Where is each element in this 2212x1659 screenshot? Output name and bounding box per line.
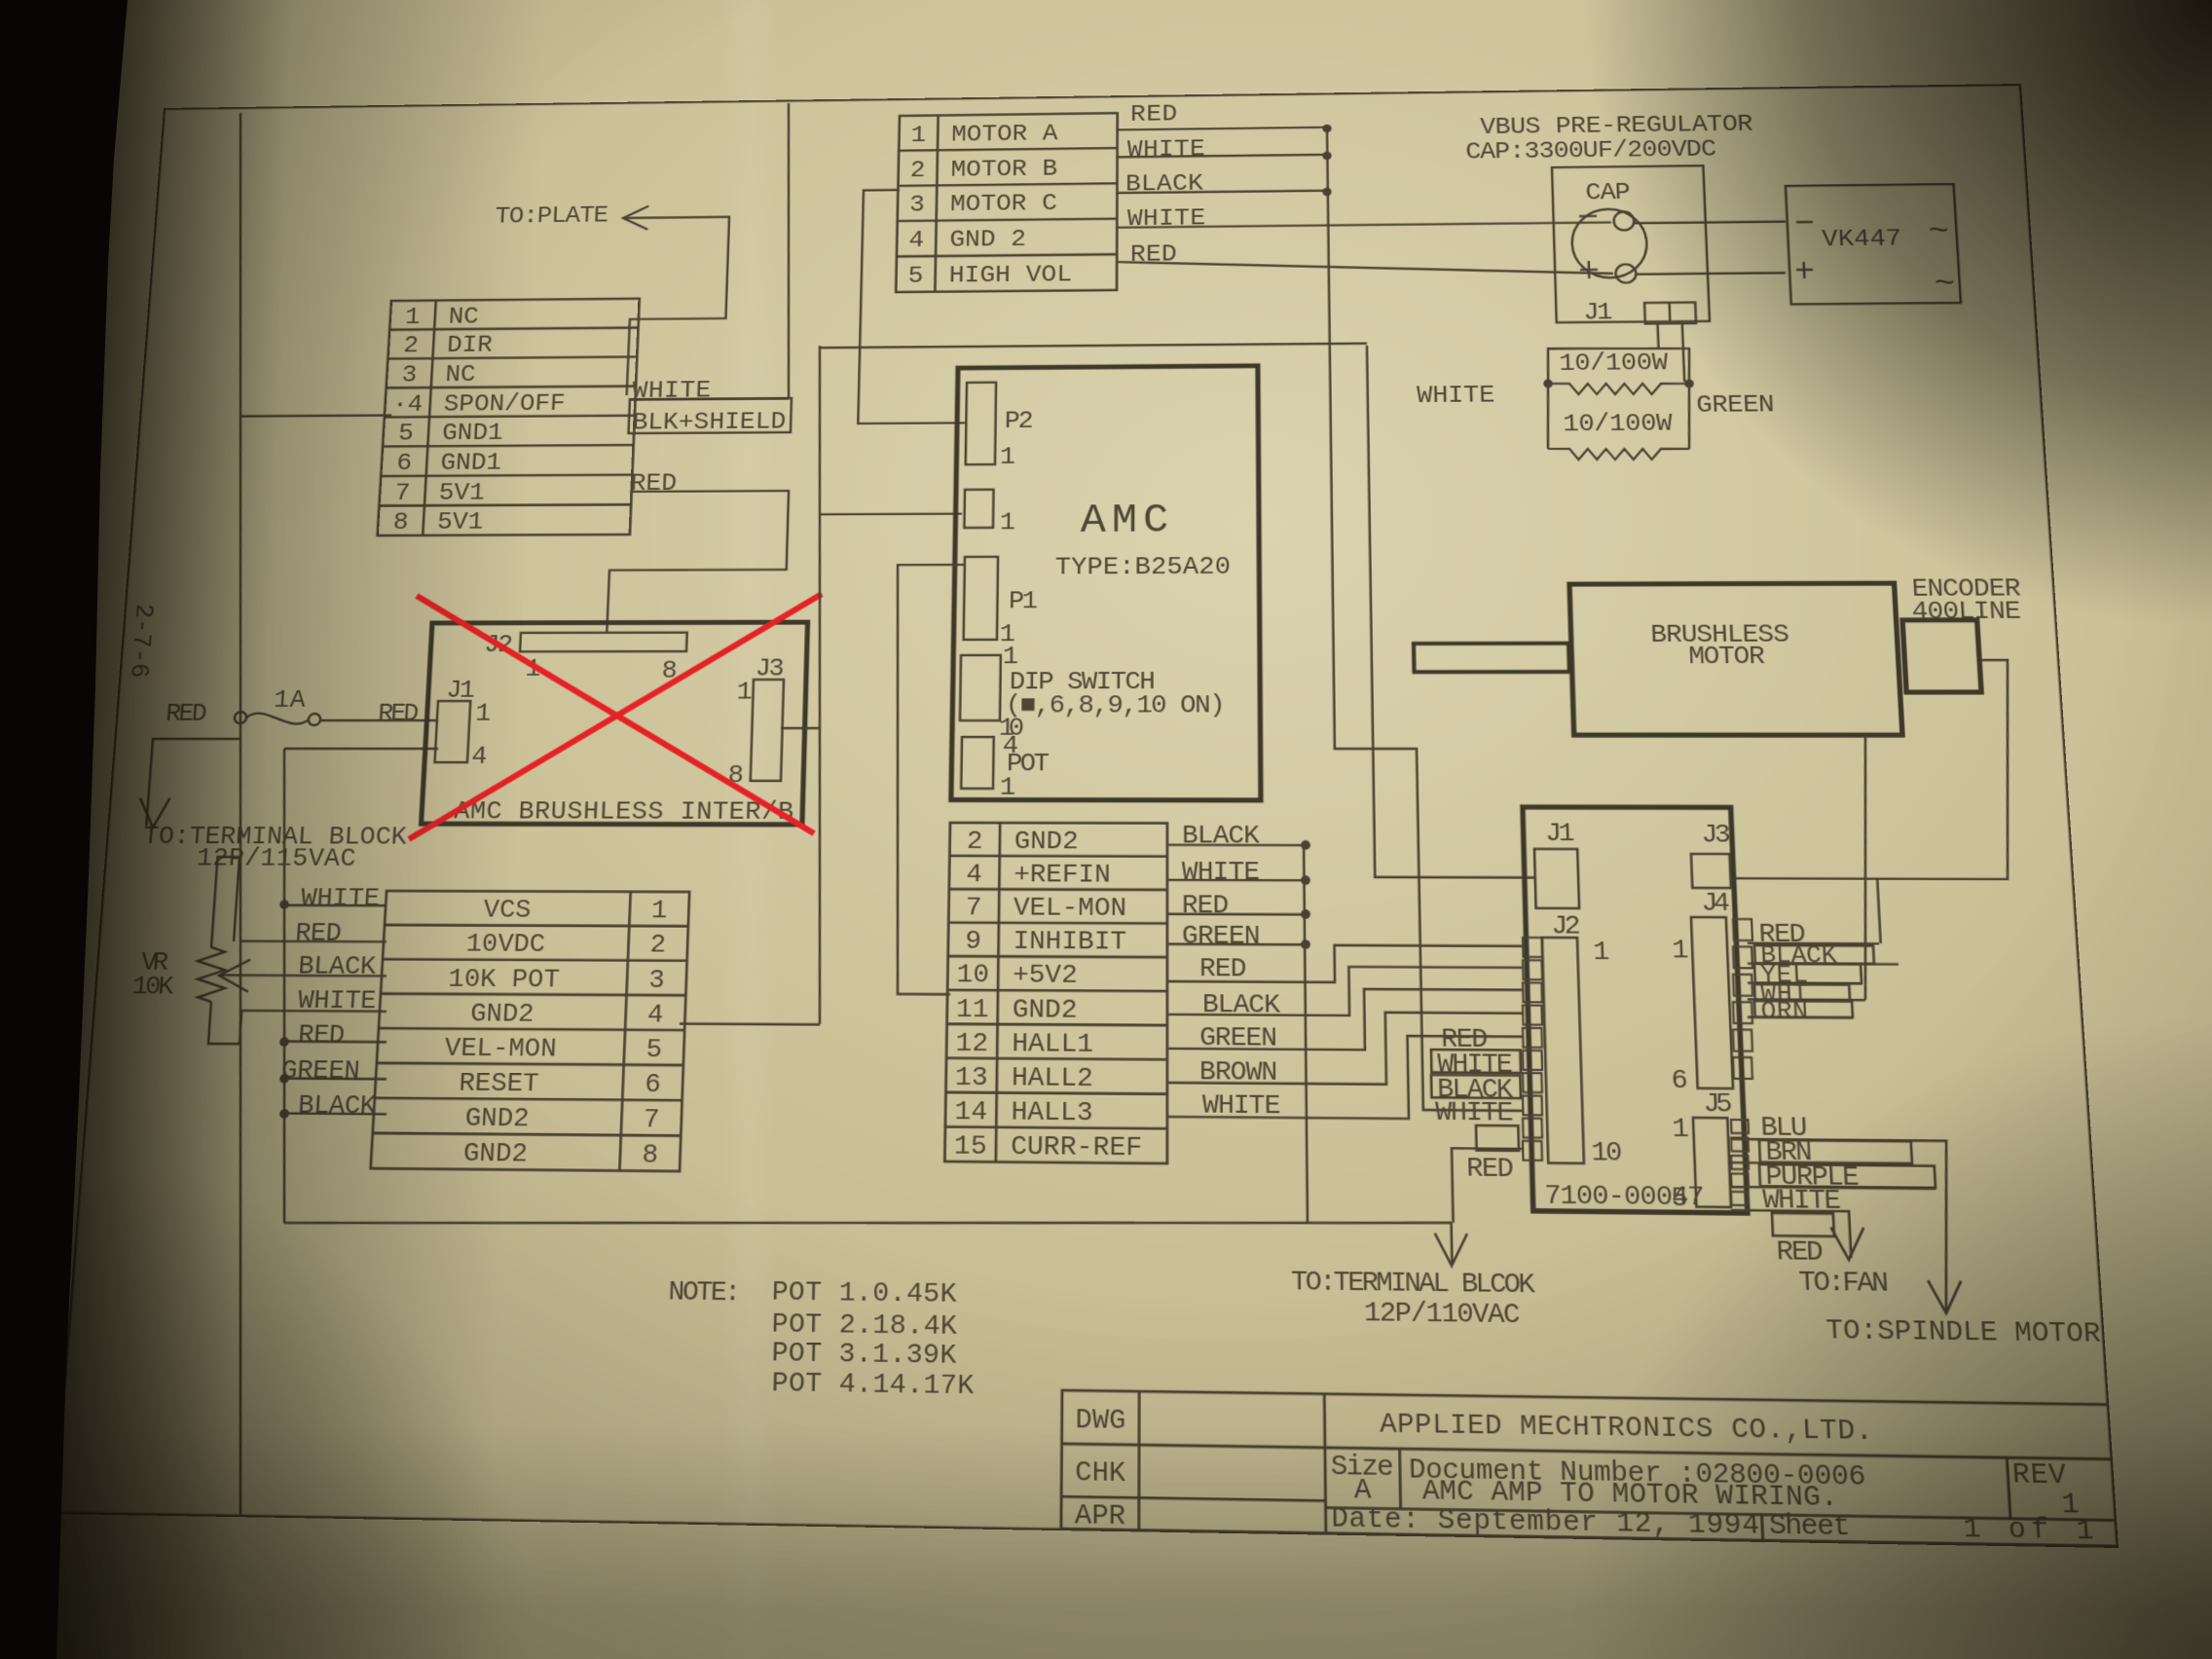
svg-text:APR: APR <box>1075 1500 1125 1533</box>
svg-text:15: 15 <box>954 1132 987 1162</box>
connector table motor power 5-pin <box>896 113 1118 292</box>
svg-text:1: 1 <box>1000 444 1015 471</box>
svg-text:GREEN: GREEN <box>1182 922 1261 952</box>
wire J4 pin5 ORN <box>1748 1016 1853 1019</box>
junction dot resistor left <box>1543 379 1553 387</box>
title block column line size <box>1400 1449 1401 1509</box>
svg-text:4: 4 <box>471 743 489 771</box>
connector table speed control 8-pin <box>371 891 689 1171</box>
svg-text:1: 1 <box>736 679 753 707</box>
module encoder <box>1902 620 1981 692</box>
wire J5 pin3 PURPLE <box>1731 1187 1935 1189</box>
wire cap plus to VK447 <box>1636 273 1786 274</box>
wire stub box pin9 <box>1476 1125 1519 1151</box>
svg-text:TO:FAN: TO:FAN <box>1798 1268 1890 1300</box>
connector table AMC signals 10-pin <box>944 823 1167 1163</box>
connector J1 interface <box>435 701 471 762</box>
fuse F1 1A <box>235 712 247 723</box>
wire left bus vertical <box>139 112 332 1516</box>
svg-text:1: 1 <box>1000 509 1015 537</box>
arrow to terminal block 115VAC <box>138 798 170 828</box>
wire motor C to AMC P2 <box>858 189 968 424</box>
svg-text:TO:TERMINAL BLCOK: TO:TERMINAL BLCOK <box>1291 1268 1536 1302</box>
svg-text:10: 10 <box>1591 1138 1623 1169</box>
wire VEL-MON RED <box>1167 913 1306 916</box>
wire shield to frame top <box>780 103 797 399</box>
svg-text:RED: RED <box>294 919 342 948</box>
wire RED pin7 to interface J2 <box>607 491 789 633</box>
wire trunk to AMC connector <box>820 513 962 516</box>
arrow TO:PLATE <box>623 206 649 230</box>
svg-text:13: 13 <box>955 1063 988 1093</box>
svg-text:1: 1 <box>1593 938 1610 968</box>
svg-text:J4: J4 <box>1701 889 1731 919</box>
svg-text:9: 9 <box>965 928 981 957</box>
svg-text:2: 2 <box>649 932 666 961</box>
connector P2 <box>966 383 996 464</box>
svg-text:WHITE: WHITE <box>1182 858 1260 887</box>
connector J5 7100 5-pin <box>1693 1118 1731 1207</box>
svg-text:5: 5 <box>397 421 414 448</box>
svg-text:BLACK: BLACK <box>297 952 377 981</box>
svg-text:RED: RED <box>1130 102 1177 129</box>
svg-text:1: 1 <box>650 898 667 927</box>
svg-text:2-7-6: 2-7-6 <box>123 604 157 679</box>
wire label box YEL <box>1754 964 1862 983</box>
wire trunk top horizontal <box>820 344 1367 348</box>
svg-text:WHITE: WHITE <box>632 378 712 405</box>
svg-text:WHITE: WHITE <box>300 885 380 914</box>
connector J2 7100 10-pin <box>1542 938 1584 1163</box>
junction dot <box>1322 188 1331 197</box>
svg-text:CURR-REF: CURR-REF <box>1011 1132 1142 1163</box>
wire motor B WHITE <box>1117 155 1327 158</box>
svg-text:RED: RED <box>1466 1155 1514 1186</box>
svg-text:3: 3 <box>909 193 925 219</box>
wire label box BLK+SHIELD <box>629 398 792 433</box>
wire INHIBIT GREEN <box>1167 943 1306 946</box>
wire pot bottom to GND2 pin4 <box>208 1002 387 1045</box>
wire J5 pin1 BLU to spindle <box>1731 1139 1956 1311</box>
resistor R2 10/100W <box>1546 384 1550 449</box>
wire into GND1 pin5 from left bus <box>240 415 391 416</box>
svg-text:HALL2: HALL2 <box>1012 1064 1093 1095</box>
svg-text:11: 11 <box>956 995 989 1025</box>
svg-text:5V1: 5V1 <box>438 479 486 506</box>
wire interface J1 pin4 to ground bus <box>284 748 438 750</box>
svg-text:J5: J5 <box>1703 1089 1733 1121</box>
svg-text:+REFIN: +REFIN <box>1014 861 1111 890</box>
svg-text:CHK: CHK <box>1075 1457 1126 1491</box>
svg-text:BLACK: BLACK <box>1125 171 1204 199</box>
wire WHITE pin4 <box>630 398 789 399</box>
wire signal ground bus <box>1304 845 1308 1223</box>
capacitor plus terminal <box>1615 264 1636 282</box>
svg-text:MOTOR C: MOTOR C <box>950 191 1057 218</box>
svg-text:10: 10 <box>956 961 989 991</box>
svg-text:INHIBIT: INHIBIT <box>1013 928 1126 958</box>
svg-text:CAP: CAP <box>1585 180 1631 207</box>
svg-text:+5V2: +5V2 <box>1013 962 1078 992</box>
module AMC BRUSHLESS INTER/B (crossed out) <box>422 622 808 825</box>
title block column line center <box>1324 1394 1326 1533</box>
svg-text:2: 2 <box>967 828 983 857</box>
svg-text:WHITE: WHITE <box>1417 383 1495 411</box>
svg-text:5: 5 <box>907 264 923 291</box>
wire J4 pin4 WHT to motor <box>1748 998 1865 1001</box>
module 7100-00047 <box>1523 807 1748 1213</box>
svg-text:RESET: RESET <box>459 1069 540 1099</box>
svg-text:RED: RED <box>1130 241 1177 269</box>
svg-text:1: 1 <box>1672 1115 1689 1146</box>
junction dot <box>279 1074 289 1084</box>
wire VCS pin1 WHITE <box>284 904 387 907</box>
wire cap J1 right to resistor <box>1682 323 1684 382</box>
wire HALL1 GREEN to J2 pin3 <box>1167 988 1525 1051</box>
wire motor C BLACK <box>1117 191 1327 193</box>
svg-text:~: ~ <box>1928 213 1951 249</box>
connector table plate 8-pin <box>378 299 640 535</box>
svg-text:10/100W: 10/100W <box>1563 411 1674 439</box>
svg-text:A: A <box>1354 1476 1373 1508</box>
svg-text:RED: RED <box>297 1021 346 1051</box>
svg-text:6: 6 <box>645 1071 662 1101</box>
svg-text:5: 5 <box>1671 1184 1689 1215</box>
svg-text:12: 12 <box>955 1029 988 1059</box>
wire pot top to 10VDC pin2 <box>211 857 240 947</box>
svg-text:VEL-MON: VEL-MON <box>1014 895 1126 925</box>
title block company row line <box>1062 1444 2115 1459</box>
svg-text:6: 6 <box>1671 1066 1688 1096</box>
junction dot <box>1301 840 1310 850</box>
resistor R1 10/100W <box>1547 348 1690 385</box>
wire J4 pin2 BLACK <box>1748 962 1899 965</box>
wire cap J1 left to resistor <box>1656 323 1659 349</box>
svg-text:APPLIED MECHTRONICS CO.,LTD.: APPLIED MECHTRONICS CO.,LTD. <box>1380 1409 1873 1448</box>
svg-text:7: 7 <box>966 894 982 923</box>
svg-text:AMC BRUSHLESS INTER/B: AMC BRUSHLESS INTER/B <box>454 797 794 827</box>
svg-text:HALL3: HALL3 <box>1011 1098 1092 1129</box>
wiper arrow <box>218 960 250 992</box>
wire +5V2 RED to J2 pin1 <box>1167 944 1524 983</box>
svg-text:12P/110VAC: 12P/110VAC <box>1364 1299 1521 1332</box>
svg-text:CAP:3300UF/200VDC: CAP:3300UF/200VDC <box>1465 136 1717 166</box>
svg-text:BLACK: BLACK <box>1182 822 1261 851</box>
module VK447 regulator <box>1786 184 1961 304</box>
red cross line 2 <box>409 594 822 840</box>
svg-text:TO:PLATE: TO:PLATE <box>495 203 609 230</box>
svg-text:3: 3 <box>648 966 666 995</box>
wire fuse to J1 of interface board <box>320 719 438 721</box>
svg-text:1A: 1A <box>273 686 307 715</box>
wire label box BLACK <box>1431 1075 1521 1098</box>
svg-text:MOTOR: MOTOR <box>1688 643 1766 672</box>
svg-text:2: 2 <box>910 158 926 184</box>
svg-text:1: 1 <box>404 305 421 331</box>
wire GND2 WHITE to cap minus <box>1117 222 1611 227</box>
svg-text:·4: ·4 <box>391 391 424 419</box>
svg-text:4: 4 <box>966 861 982 890</box>
title block outline <box>1061 1390 2120 1546</box>
arrow to spindle motor <box>1928 1280 1963 1313</box>
wire stub box J5 pin5 <box>1772 1213 1834 1236</box>
wire HALL3 WHITE to J2 pin5 <box>1167 1034 1525 1120</box>
module BRUSHLESS MOTOR <box>1569 583 1902 735</box>
svg-text:RED: RED <box>1182 892 1229 921</box>
wire GND2 BLACK to J2 pin2 <box>1167 966 1524 1016</box>
svg-text:GND1: GND1 <box>440 450 502 477</box>
connector J3 7100 <box>1691 854 1731 888</box>
svg-text:DIR: DIR <box>446 333 493 360</box>
svg-text:GREEN: GREEN <box>280 1056 360 1087</box>
wire J5 pin4 WHITE to fan <box>1731 1210 1851 1258</box>
wire RED up to J3 net <box>1877 879 1880 943</box>
svg-text:WHITE: WHITE <box>297 987 377 1017</box>
svg-text:GND2: GND2 <box>462 1139 529 1170</box>
svg-text:HIGH VOL: HIGH VOL <box>949 262 1073 290</box>
title block left CHK/APR line <box>1061 1496 1325 1500</box>
wire GND2 BLACK <box>1167 844 1306 847</box>
junction dot <box>1322 125 1331 133</box>
svg-text:J1: J1 <box>1583 300 1613 327</box>
junction dot <box>279 900 289 908</box>
connector POT <box>961 737 993 789</box>
svg-text:5: 5 <box>645 1036 663 1066</box>
connector J4 7100 6-pin <box>1691 917 1733 1088</box>
connector J1 cap <box>1644 303 1696 324</box>
title block column line REV <box>2007 1457 2010 1519</box>
svg-text:VCS: VCS <box>483 897 532 926</box>
svg-text:GND2: GND2 <box>469 1000 535 1030</box>
svg-text:POT 1.0.45K: POT 1.0.45K <box>771 1277 957 1310</box>
svg-text:14: 14 <box>954 1097 987 1127</box>
junction dot <box>279 1109 289 1119</box>
wire trunk vertical <box>801 346 836 1024</box>
svg-text:7: 7 <box>643 1106 660 1136</box>
svg-text:10K: 10K <box>131 973 175 1002</box>
svg-text:HALL1: HALL1 <box>1012 1029 1093 1059</box>
svg-text:MOTOR B: MOTOR B <box>950 156 1057 183</box>
svg-text:Sheet: Sheet <box>1768 1511 1851 1545</box>
svg-text:POT 3.1.39K: POT 3.1.39K <box>771 1339 957 1373</box>
connector AMC aux <box>964 490 993 528</box>
capacitor box <box>1552 166 1710 322</box>
wire plate connection <box>615 217 729 395</box>
module AMC amplifier B25A20 <box>951 366 1261 800</box>
capacitor minus terminal <box>1613 211 1634 230</box>
connector J1 7100 <box>1534 849 1579 908</box>
connector P1 <box>964 557 998 640</box>
svg-text:GND2: GND2 <box>464 1104 530 1134</box>
svg-text:10VDC: 10VDC <box>465 931 546 960</box>
title block column line left labels <box>1138 1391 1141 1530</box>
wire motor A RED <box>1117 128 1327 130</box>
svg-text:GREEN: GREEN <box>1696 392 1775 421</box>
connector DIP switch <box>960 655 1001 720</box>
plus pin <box>1796 269 1813 272</box>
wire ground bus vertical <box>253 749 314 1223</box>
svg-text:GND 2: GND 2 <box>949 227 1026 254</box>
svg-text:3: 3 <box>401 362 418 389</box>
wire label box ORN <box>1754 1001 1853 1017</box>
wire J4 pin1 RED <box>1748 942 1879 945</box>
title block column line sheet <box>1762 1515 1763 1541</box>
svg-text:DWG: DWG <box>1075 1405 1125 1437</box>
minus pin <box>1796 221 1813 224</box>
svg-text:WHITE: WHITE <box>1127 136 1205 164</box>
svg-text:6: 6 <box>396 451 413 478</box>
svg-text:GND2: GND2 <box>1014 828 1079 857</box>
connector J3 interface <box>751 680 784 781</box>
svg-text:VK447: VK447 <box>1822 226 1902 254</box>
svg-text:REV: REV <box>2011 1459 2068 1493</box>
svg-text:NC: NC <box>445 362 477 389</box>
wire encoder to 7100 J3 <box>1722 660 2021 879</box>
wire label box BRN <box>1759 1140 1912 1163</box>
svg-text:P1: P1 <box>1009 588 1038 616</box>
wire +REFIN WHITE <box>1167 879 1306 882</box>
title block date row line <box>1326 1508 2119 1521</box>
potentiometer VR 10K zigzag <box>195 947 228 1002</box>
svg-text:RED: RED <box>1776 1237 1825 1270</box>
svg-text:POT 2.18.4K: POT 2.18.4K <box>771 1309 958 1343</box>
wire J2 pin10 to terminal block <box>1452 1148 1525 1223</box>
svg-text:AMC: AMC <box>1081 498 1168 544</box>
junction dot <box>1301 940 1310 949</box>
wire HIGH VOL RED to cap plus <box>1117 257 1613 278</box>
wire cap minus to VK447 <box>1634 222 1786 224</box>
wire label box WHITE <box>1431 1050 1521 1073</box>
svg-text:~: ~ <box>1934 266 1957 303</box>
wire J5 pin2 BRN <box>1731 1162 1912 1164</box>
svg-text:J1: J1 <box>1545 820 1575 849</box>
svg-text:RED: RED <box>377 700 419 728</box>
svg-text:P2: P2 <box>1005 408 1034 435</box>
wire RESET pin6 <box>284 1077 387 1080</box>
wire trunk to GND2 pin4 <box>680 1022 820 1025</box>
wire AMC P1 to signal table <box>889 565 965 994</box>
svg-text:4: 4 <box>908 228 924 254</box>
wire J4 pin3 YEL <box>1748 981 1862 984</box>
wire branch to terminal block arrow <box>146 739 240 826</box>
svg-text:TO:SPINDLE MOTOR: TO:SPINDLE MOTOR <box>1825 1315 2102 1350</box>
junction dot <box>1301 875 1310 885</box>
wire label box PURPLE <box>1759 1164 1935 1188</box>
motor shaft <box>1414 644 1569 672</box>
wire motor bus to AMC and 7100 pin8 <box>1327 127 1523 1111</box>
svg-text:4: 4 <box>646 1001 664 1030</box>
svg-text:(■,6,8,9,10 ON): (■,6,8,9,10 ON) <box>1006 692 1226 720</box>
svg-text:7: 7 <box>394 480 411 507</box>
svg-text:10/100W: 10/100W <box>1559 350 1669 378</box>
svg-text:TYPE:B25A20: TYPE:B25A20 <box>1055 554 1231 582</box>
wire motor bottom to 7100 WHT <box>1852 735 1879 1000</box>
svg-text:12P/115VAC: 12P/115VAC <box>196 845 356 874</box>
svg-text:10K POT: 10K POT <box>448 965 561 995</box>
svg-text:POT 4.14.17K: POT 4.14.17K <box>771 1369 975 1403</box>
svg-text:MOTOR A: MOTOR A <box>951 121 1058 148</box>
svg-text:2: 2 <box>403 333 420 359</box>
svg-text:J3: J3 <box>1701 821 1732 850</box>
junction dot <box>1301 909 1310 919</box>
svg-text:GND1: GND1 <box>441 421 503 448</box>
svg-text:5V1: 5V1 <box>436 509 484 536</box>
svg-text:BLACK: BLACK <box>297 1091 377 1122</box>
red cross line 1 <box>403 595 820 833</box>
wire bottom ground rail <box>284 1211 1452 1235</box>
connector J2 bar <box>520 633 687 652</box>
junction dot <box>279 1037 289 1047</box>
svg-text:1: 1 <box>475 700 492 728</box>
wire HALL2 BROWN to J2 pin4 <box>1167 1012 1525 1086</box>
svg-text:ORN: ORN <box>1760 997 1809 1026</box>
wire label box WHT <box>1754 984 1850 1000</box>
svg-text:8: 8 <box>392 509 409 536</box>
capacitor CAP circle <box>1571 208 1648 277</box>
svg-text:RED: RED <box>165 700 208 728</box>
svg-text:WHITE: WHITE <box>1127 206 1205 234</box>
wire GND2 pin7 <box>284 1112 387 1115</box>
svg-text:NC: NC <box>448 304 479 331</box>
svg-text:NOTE:: NOTE: <box>668 1277 741 1309</box>
svg-text:SPON/OFF: SPON/OFF <box>443 390 566 419</box>
svg-text:1: 1 <box>910 123 926 149</box>
svg-text:1: 1 <box>1003 644 1019 672</box>
arrow to fan <box>1831 1228 1865 1261</box>
svg-text:8: 8 <box>642 1141 659 1171</box>
svg-text:1: 1 <box>1000 774 1016 803</box>
junction dot resistor right <box>1684 380 1694 388</box>
wire VEL-MON pin5 <box>284 1040 387 1043</box>
svg-text:1: 1 <box>1672 937 1689 967</box>
wire interface J3 to trunk <box>781 727 820 729</box>
wire label box BLACK <box>1754 945 1874 964</box>
junction dot <box>1322 152 1331 161</box>
svg-text:GND2: GND2 <box>1013 995 1078 1025</box>
svg-text:RED: RED <box>630 470 678 498</box>
arrow to terminal block 110VAC <box>1450 1223 1453 1264</box>
svg-text:VEL-MON: VEL-MON <box>444 1034 557 1064</box>
wire wiper to 10K POT pin3 <box>219 974 387 977</box>
svg-text:BLK+SHIELD: BLK+SHIELD <box>632 409 787 437</box>
wire to 7100 J1 <box>1367 345 1534 878</box>
